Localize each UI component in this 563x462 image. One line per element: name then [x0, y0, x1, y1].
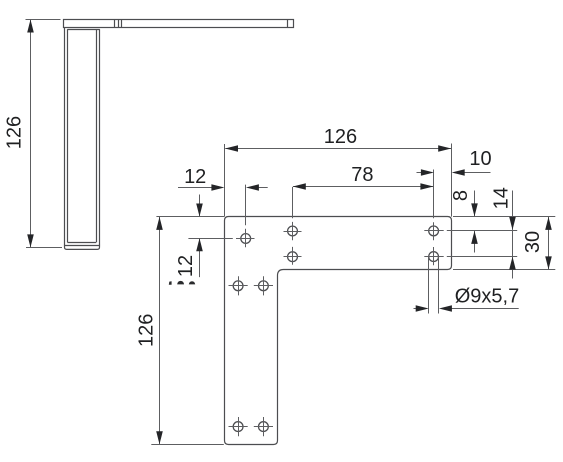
glyph fragment marks below vertical 12 label	[169, 281, 195, 285]
svg-text:12: 12	[175, 255, 197, 277]
arrowhead: 12 horizontal left (right-pointing)	[211, 184, 224, 191]
ext line: hole row1-left horizontal	[188, 238, 232, 240]
svg-text:10: 10	[469, 148, 491, 170]
dim line: 12 vertical lower segment	[199, 238, 201, 277]
ext line: hole row2-right horizontal	[424, 256, 443, 258]
arrowhead: 12 vertical lower (up-pointing)	[196, 238, 203, 251]
arrowhead: 14 bottom (up-pointing)	[509, 257, 516, 270]
arrowhead: diameter left (right-pointing)	[416, 305, 429, 312]
svg-text:12: 12	[184, 166, 206, 188]
svg-text:126: 126	[135, 314, 157, 347]
arrowhead: side 126 bottom (down)	[27, 234, 34, 247]
hole H4	[429, 226, 439, 236]
arrowhead: 126 top left	[225, 145, 238, 152]
side view: flange end cap line	[287, 20, 289, 28]
arrowhead: plate 126-left bottom (down)	[156, 431, 163, 444]
side view: leg outer left line	[64, 28, 66, 245]
arrowhead: 12 vertical upper (down-pointing)	[196, 204, 203, 217]
ext line: hole row1-right horizontal	[424, 230, 443, 232]
hole H9 crosshair	[254, 417, 273, 436]
hole H7	[259, 281, 269, 291]
dim line: 12 horizontal left tail	[178, 187, 213, 189]
ext line: plate top-right horizontal	[453, 216, 555, 218]
hole H5	[429, 252, 439, 262]
dim line: 14 vertical upper	[512, 191, 514, 230]
leader line: diameter label right tail	[451, 308, 519, 310]
arrowhead: 8 top (down-pointing)	[471, 203, 478, 216]
arrowhead: 14 top (down-pointing)	[509, 217, 516, 230]
dim line: 78	[293, 186, 433, 188]
svg-text:14: 14	[490, 187, 512, 209]
ext line: hole col4 vertical	[433, 170, 435, 219]
dim line: 126 top	[225, 148, 451, 150]
ext line: strip bottom-right horizontal	[453, 269, 555, 271]
ext line: side view top	[26, 19, 61, 21]
arrowhead: 78 left	[293, 183, 306, 190]
dim line: 10 right tail	[464, 172, 491, 174]
arrowhead: 12 horizontal right (left-pointing)	[246, 184, 259, 191]
dim line: 12 horizontal right tail	[258, 187, 268, 189]
arrowhead: side 126 top (up)	[27, 20, 34, 33]
side view: leg flange bar	[64, 20, 294, 28]
ext line: plate top-left horizontal	[156, 216, 224, 218]
arrowhead: 30 top (up)	[545, 217, 552, 230]
arrowhead: 10 right (left-pointing)	[452, 169, 465, 176]
side view: leg top joint line	[67, 29, 99, 31]
hole H8	[233, 422, 243, 432]
dim line: 14 vertical middle-lower tail	[512, 230, 514, 279]
side view: foot block	[65, 246, 100, 250]
svg-text:30: 30	[522, 231, 544, 253]
hole H1 (12,12)	[241, 234, 251, 244]
ext line: plate left edge upward	[224, 144, 226, 217]
ext line: hole col2 vertical	[292, 187, 294, 218]
hole H6 crosshair	[229, 276, 248, 295]
side view: leg inner left line	[67, 29, 69, 242]
ext line: hole H5 left edge (diameter)	[428, 257, 430, 314]
hole H7 crosshair	[254, 276, 273, 295]
arrowhead: 78 right	[420, 183, 433, 190]
ext line: hole col1 vertical	[245, 185, 247, 226]
side view: foot top line	[67, 242, 96, 244]
side view: leg inner right line	[96, 29, 98, 242]
svg-text:Ø9x5,7: Ø9x5,7	[455, 286, 519, 308]
arrowhead: 10 left (right-pointing)	[421, 169, 434, 176]
svg-text:78: 78	[351, 164, 373, 186]
dim line: 8 vertical lower tail	[474, 231, 476, 253]
hole H2	[288, 226, 298, 236]
dim line: side 126 vertical	[30, 20, 32, 248]
ext line: plate right edge upward	[451, 144, 453, 217]
hole H9	[259, 422, 269, 432]
leader line: diameter label left tail	[414, 308, 417, 310]
hole H3	[288, 252, 298, 262]
plate outline (L-shape)	[225, 217, 452, 445]
dim line: plate 126 vertical-left	[159, 217, 161, 444]
arrowhead: plate 126-left top (up)	[156, 217, 163, 230]
ext line: side view bottom	[26, 247, 62, 249]
svg-text:126: 126	[324, 126, 357, 148]
ext line: plate bottom-left horizontal	[151, 444, 224, 446]
dim line: 10 left tail	[417, 172, 423, 174]
arrowhead: 8 bottom (up-pointing)	[471, 231, 478, 244]
svg-text:8: 8	[450, 190, 472, 201]
arrowhead: diameter right (left-pointing)	[439, 305, 452, 312]
dim line: 12 vertical upper segment	[199, 195, 201, 217]
arrowhead: 126 top right	[438, 145, 451, 152]
hole H8 crosshair	[229, 417, 248, 436]
svg-text:126: 126	[4, 116, 26, 149]
ext line: hole H5 right edge (diameter)	[438, 257, 440, 314]
hole H3 crosshair horizontal	[284, 256, 302, 258]
side view: leg outer right line	[99, 29, 101, 245]
dim line: 8 vertical upper	[474, 191, 476, 217]
hole H6	[233, 281, 243, 291]
dim line: 30 vertical	[548, 217, 550, 270]
arrowhead: 30 bottom (down)	[545, 256, 552, 269]
hole H2 crosshair horizontal	[284, 231, 302, 233]
side view: flange joint ticks	[115, 20, 122, 28]
